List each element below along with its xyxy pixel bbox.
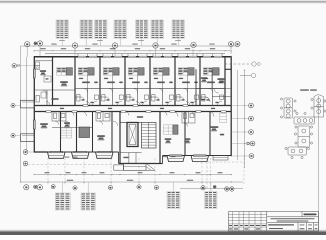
- bottom-row wall A: [60, 112, 62, 153]
- grid line to title block: [206, 158, 208, 189]
- bottom bay window x=191: [191, 156, 209, 162]
- schedule table bottom x=55.2: [55, 193, 70, 210]
- bottom numbers table 1: [61, 128, 72, 138]
- corridor lower wall: [34, 111, 231, 113]
- detail label: [300, 89, 309, 92]
- corridor upper wall gaps: [83, 105, 188, 107]
- bottom wall with bays left: [48, 151, 119, 153]
- grid bubble left 1: [12, 64, 16, 68]
- sheet right frame line: [318, 96, 320, 231]
- top-row wall x=150: [149, 57, 151, 106]
- bottom dimension texts: [45, 156, 223, 181]
- bottom wall left segment: [34, 151, 48, 153]
- bottom-row wall D: [111, 112, 113, 153]
- core step right: [162, 156, 164, 164]
- bottom-row wall C: [92, 112, 94, 153]
- grid bubble bottom 7: [137, 185, 141, 189]
- right dimension lines: [238, 70, 245, 168]
- bottom wall core segment: [119, 163, 163, 165]
- mailbox wall: [120, 122, 127, 124]
- entrance porch: [124, 163, 147, 170]
- schedule table top x=135.5: [136, 20, 149, 39]
- left balcony upper: [21, 100, 35, 108]
- vent stack right column: [314, 95, 324, 118]
- vertical grid dashes below plan: [48, 158, 245, 186]
- top dimension lines: [21, 46, 239, 51]
- grid bubble bottom 9: [201, 186, 205, 190]
- elevator shaft: [127, 123, 138, 147]
- schedule table top x=56: [56, 20, 69, 39]
- core wall right: [159, 112, 161, 164]
- vent header bar: [294, 117, 315, 124]
- core step left: [118, 152, 120, 164]
- right grid bubbles: [247, 103, 255, 158]
- right porch steps: [213, 156, 228, 161]
- top-row wall x=225: [224, 57, 226, 106]
- grid bubble top 2: [34, 42, 37, 45]
- top-row wall x=75: [74, 57, 76, 106]
- bottom-row wall E: [184, 112, 186, 156]
- grid bubble bottom 8: [154, 186, 158, 190]
- bottom-row wall B: [76, 112, 78, 153]
- left grid bubbles: [11, 64, 28, 166]
- grid bubble top 6: [153, 43, 158, 48]
- vent center stack: [298, 126, 310, 147]
- grid bubble right 1: [249, 103, 254, 108]
- grid bubble top 5: [112, 43, 117, 48]
- grid bubble left 3: [11, 133, 15, 137]
- grid bubble top 8: [229, 42, 234, 47]
- left outer wall windows placeholder: [33, 56, 35, 152]
- bay window lines bottom wall: [50, 151, 111, 153]
- bottom bay window x=167: [167, 156, 185, 162]
- grid bubble right 4: [250, 141, 255, 146]
- top dimension texts: [40, 44, 215, 50]
- grid bubble top 7: [191, 42, 196, 47]
- grid bubble left 4: [23, 150, 28, 155]
- porch left wing: [114, 165, 124, 170]
- mid bathroom cluster: [96, 112, 110, 125]
- title block: [229, 212, 319, 232]
- porch right ramp: [146, 163, 155, 170]
- apartment module at x=100: [100, 54, 125, 106]
- grid bubble right 5: [247, 142, 250, 145]
- top-row wall x=200: [199, 57, 201, 106]
- mini table right room: [220, 113, 227, 122]
- door arcs bottom row: [65, 121, 70, 126]
- left wall window 2: [33, 120, 35, 129]
- grid bubble bottom 6: [108, 186, 112, 190]
- schedule table top x=80: [80, 20, 93, 39]
- bottom numbers table 2: [164, 125, 173, 134]
- left corner apartment: [34, 61, 75, 106]
- schedule table bottom x=167: [167, 192, 180, 209]
- scan bottom edge band: [0, 230, 326, 232]
- top bubble stems: [27, 46, 193, 57]
- grid bubble bottom 4: [51, 185, 55, 189]
- bottom-row wall F: [209, 112, 211, 156]
- grid bubble top 4: [72, 43, 77, 48]
- bottom bay window x=47.5: [48, 152, 66, 158]
- right-side axis marks: [225, 47, 260, 78]
- schedule table bottom x=81: [81, 193, 96, 210]
- scan top edge band: [0, 0, 326, 1]
- corridor tiny texts: [60, 107, 64, 110]
- grid bubble left 5: [23, 161, 28, 166]
- left balcony lower: [21, 134, 35, 142]
- grid bubble left 2: [11, 103, 15, 107]
- detail callout circles: [280, 98, 282, 100]
- apartment module at x=150: [150, 54, 175, 106]
- core entry partitions: [120, 152, 142, 154]
- schedule table top x=151: [151, 20, 164, 39]
- grid bubble bottom 5: [73, 186, 77, 190]
- right corner apartment: [196, 69, 231, 105]
- apartment module at x=175: [175, 54, 200, 106]
- bottom room labels: [40, 124, 48, 125]
- grid bubble bottom 10: [213, 185, 216, 188]
- bottom-left partition: [52, 127, 93, 129]
- grid bubble right 6: [249, 154, 254, 159]
- bottom vent block 2: [173, 125, 178, 134]
- bottom vent block 1: [79, 127, 90, 138]
- bottom bay window x=95.5: [96, 152, 114, 158]
- right dim slash ticks: [244, 69, 245, 156]
- schedule table top x=94.5: [95, 20, 108, 39]
- apartment module at x=125: [125, 54, 150, 106]
- core wall left: [119, 112, 121, 164]
- corridor door openings: [46, 111, 226, 113]
- schedule table top x=114: [114, 20, 127, 39]
- grid bubble top 9: [235, 42, 240, 47]
- left dimension lines: [20, 46, 22, 182]
- grid bubble bottom 3: [37, 185, 42, 190]
- bottom bay window x=71.5: [72, 152, 90, 158]
- right outer wall: [230, 56, 232, 156]
- left wall window 1: [33, 69, 35, 78]
- top-row wall x=125: [124, 57, 126, 106]
- top outer wall: [34, 56, 232, 58]
- vent bottom group: [288, 147, 307, 155]
- schedule table top x=172: [172, 20, 185, 39]
- schedule table bottom x=204.5: [205, 192, 218, 209]
- top-row wall x=100: [99, 57, 101, 106]
- grid bubble top 1: [25, 42, 30, 47]
- grid bubble bottom 11: [225, 187, 229, 191]
- grid bubble bottom 12: [230, 187, 234, 191]
- grid bubble bottom 1: [24, 185, 29, 190]
- apartment module at x=75: [75, 54, 100, 106]
- vent stack detail drawing: [280, 90, 326, 159]
- left bathroom cluster: [52, 112, 66, 125]
- grid bubble bottom 2: [34, 185, 37, 188]
- bottom dimension lines: [21, 175, 244, 189]
- top-row wall x=175: [174, 57, 176, 106]
- top balcony rail: [45, 53, 225, 55]
- grid bubble right 3: [249, 130, 254, 135]
- grid bubble top 3: [37, 41, 42, 46]
- stair flight: [142, 123, 157, 149]
- apartment module at x=200: [200, 54, 225, 106]
- grid bubble right 2: [249, 116, 254, 121]
- vent stack left column: [284, 98, 293, 108]
- corridor upper wall: [34, 105, 231, 107]
- right bathroom cluster: [182, 112, 195, 127]
- corridor door arcs: [46, 102, 50, 106]
- table captions: [59, 39, 65, 42]
- top-row wall x=52.5: [52, 57, 54, 106]
- bottom wall right segment: [163, 155, 232, 157]
